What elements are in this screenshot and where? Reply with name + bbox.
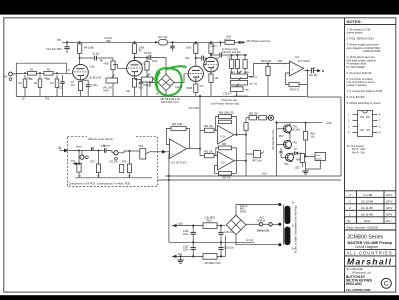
wire: footswitch ground: [306, 161, 321, 170]
svg-text:22-11-88: 22-11-88: [361, 206, 373, 210]
svg-text:IC1b: IC1b: [221, 137, 227, 139]
potentiometer VR5 BASS: [231, 84, 244, 96]
svg-text:Pin 4: -15v: Pin 4: -15v: [352, 150, 366, 154]
svg-text:2. PCB: JMP61A ONLY: 2. PCB: JMP61A ONLY: [347, 37, 375, 41]
op-amp IC2b: [218, 126, 235, 145]
svg-text:Dwg. Number: C00108: Dwg. Number: C00108: [347, 226, 379, 230]
svg-text:470k: 470k: [104, 63, 110, 66]
wire: IC2a +in ground: [168, 154, 170, 182]
resistor R71: [77, 151, 81, 178]
capacitor C62 (IC2b feedback): [219, 120, 232, 123]
label revision row 4: [349, 193, 392, 197]
svg-text:R2b: R2b: [45, 98, 50, 100]
svg-text:BC184: BC184: [293, 130, 301, 132]
svg-text:22-12-88: 22-12-88: [361, 200, 373, 204]
resistor R1 (series input): [28, 71, 37, 75]
node A output arrow: [317, 69, 325, 73]
resistor R3 (shunt to ground): [23, 72, 27, 96]
svg-text:Presence cap: Presence cap: [222, 99, 238, 102]
capacitor C41 (series): [99, 148, 114, 153]
resistor R15 (V2b plate load): [209, 41, 213, 57]
triode V1a: [73, 64, 89, 80]
svg-text:R72: R72: [91, 162, 96, 164]
svg-text:Marshall: Marshall: [347, 256, 392, 266]
wire: grid feed V1a: [22, 72, 73, 74]
svg-text:R50: R50: [311, 133, 316, 136]
resistor R62 (to IC2b): [200, 128, 218, 132]
capacitor C3 (coupling): [95, 56, 113, 61]
svg-text:4-1-88: 4-1-88: [364, 193, 373, 197]
resistor R16 (V2b cathode): [209, 74, 213, 96]
svg-text:TREB: TREB: [229, 72, 235, 74]
revision table frame: [345, 191, 396, 230]
svg-text:GAIN: GAIN: [103, 90, 109, 93]
IC pinout diagram: [348, 111, 381, 137]
resistor R63 (to IC2c): [200, 154, 218, 158]
connector MV jack: [268, 115, 273, 120]
svg-text:Foot: Foot: [316, 154, 321, 157]
resistor R22 (bass): [243, 54, 247, 74]
transformer T1 winding lower: [284, 227, 290, 245]
svg-text:switch: switch: [316, 157, 323, 160]
transistor TR2: [277, 133, 292, 149]
svg-text:+: +: [292, 67, 294, 71]
svg-text:470p: 470p: [152, 61, 158, 63]
svg-text:V2a: V2a: [185, 57, 190, 60]
wire: FX internal arrow node: [73, 162, 83, 165]
svg-text:10k 1w: 10k 1w: [224, 39, 231, 41]
resistor R61 (IC2a feedback): [167, 126, 190, 148]
svg-text:AC 12v: AC 12v: [246, 239, 254, 242]
svg-text:+16v b: +16v b: [210, 46, 218, 48]
svg-text:C65 47p: C65 47p: [222, 177, 231, 179]
svg-text:GPV: GPV: [386, 200, 392, 204]
resistor R66 (mixer out load): [244, 123, 248, 131]
svg-text:TR3: TR3: [284, 164, 289, 166]
op-amp IC1a: [290, 61, 304, 76]
separator above ALL COUNTRIES: [345, 249, 396, 251]
svg-text:8. VL2: ECC83.: 8. VL2: ECC83.: [347, 95, 366, 99]
svg-text:C11 1n: C11 1n: [175, 87, 183, 89]
svg-text:To Sec. of Mains Transformer (: To Sec. of Mains Transformer (See Pwr Am…: [295, 205, 298, 253]
svg-text:Gnd: Gnd: [262, 174, 267, 176]
svg-text:JCM800 Series: JCM800 Series: [347, 235, 384, 241]
label effects loop title: [87, 135, 135, 141]
diode D7: [292, 152, 302, 155]
bridge rectifier BR1: [226, 215, 246, 234]
wire: input shield ground loop: [16, 63, 66, 96]
svg-text:VR3 1M: VR3 1M: [249, 77, 257, 79]
wire: IC2b output: [234, 118, 247, 161]
svg-text:unless stated.: unless stated.: [347, 31, 364, 35]
resistor R51: [300, 154, 304, 168]
resistor R75 (FX extra): [120, 165, 124, 173]
svg-text:R63 10k: R63 10k: [204, 151, 213, 153]
svg-text:(on Preamp Version only): (on Preamp Version only): [211, 103, 239, 106]
capacitor C7 (coupling V2a to V2b): [195, 56, 206, 65]
capacitor C30: [191, 225, 196, 243]
svg-text:Effects Loop Circuit: Effects Loop Circuit: [89, 137, 113, 141]
svg-text:C15 0.68u: C15 0.68u: [189, 108, 200, 110]
triode V2b: [204, 57, 219, 74]
resistor R7 (V1a cathode): [78, 82, 82, 96]
label revision row 3: [349, 200, 392, 204]
green annotation circle: [155, 66, 185, 95]
svg-text:R54: R54: [296, 160, 301, 162]
wire: op-amp section ground rail: [165, 175, 341, 177]
svg-text:R53: R53: [279, 152, 284, 154]
bottom letterbox bar: [0, 295, 399, 300]
label note 3: [347, 43, 382, 53]
op-amp IC2c: [218, 152, 235, 171]
resistor R13 (V2a plate load): [194, 41, 198, 66]
svg-text:C: C: [384, 281, 389, 288]
svg-text:R64 100k C62: R64 100k C62: [219, 112, 234, 114]
svg-text:7815: 7815: [206, 220, 212, 223]
wire: ground rail (preamp row): [16, 96, 306, 98]
svg-text:ALL COUNTRIES: ALL COUNTRIES: [347, 251, 393, 256]
notes header separator: [345, 24, 396, 26]
resistor R31 (feedback): [289, 69, 308, 86]
svg-text:C5 1u: C5 1u: [144, 85, 151, 87]
capacitor C5 (V1b cathode bypass): [135, 80, 144, 97]
potentiometer VR4 MIDDLE: [231, 77, 248, 85]
potentiometer VR1 GAIN: [106, 75, 118, 97]
svg-text:1M: 1M: [34, 82, 37, 85]
ground (switch section): [302, 162, 308, 174]
svg-text:HT1: HT1: [57, 39, 62, 42]
wire: inverting input feedback loop: [286, 73, 290, 85]
svg-text:R62 10k: R62 10k: [204, 126, 213, 128]
wire: IC2a output node: [187, 95, 202, 156]
resistor R12 (switch bias): [145, 57, 149, 78]
capacitor C42 (FX extra): [92, 147, 94, 150]
label note 4: [347, 55, 377, 69]
label note 1: [347, 28, 371, 35]
svg-text:C22: C22: [227, 57, 232, 59]
svg-text:7. V connectors made to PCB.: 7. V connectors made to PCB.: [347, 89, 383, 93]
svg-text:R= NOT Radial: R= NOT Radial: [347, 65, 366, 69]
resistor R30 (shunt at op-amp input): [266, 64, 270, 97]
svg-text:2k7: 2k7: [71, 84, 76, 87]
top letterbox bar: [0, 0, 399, 15]
svg-text:Date: Date: [364, 219, 371, 223]
input jack JK1: [9, 72, 22, 80]
wire: switch left feed: [149, 82, 158, 88]
svg-text:(IN): (IN): [3, 76, 7, 79]
svg-text:VR4 1M: VR4 1M: [249, 83, 257, 85]
svg-text:1/4 TL072: 1/4 TL072: [298, 59, 310, 63]
resistor R9 (V1b plate load): [132, 41, 136, 60]
wire: +15v switch rail: [276, 122, 323, 124]
svg-text:MID: MID: [237, 72, 241, 74]
resistor R11 (rail decoupling): [155, 39, 168, 45]
transformer T1 winding upper: [284, 206, 290, 224]
resistor R5 (shunt): [38, 72, 42, 96]
svg-text:0.68u: 0.68u: [92, 84, 99, 87]
wire: lower ground rail: [158, 179, 342, 181]
svg-text:TR2: TR2: [293, 142, 298, 145]
svg-text:C00109 100W.: C00109 100W.: [363, 49, 381, 53]
effects loop dashed enclosure: [68, 137, 158, 187]
capacitor C6 (coupling V1b to switch): [134, 55, 167, 74]
wire: switch section left bus: [276, 121, 278, 176]
svg-text:FS1: FS1: [260, 217, 265, 220]
notes column left edge: [344, 18, 346, 292]
capacitor C32: [191, 241, 196, 257]
wire: to op-amp non-inverting input: [268, 63, 290, 65]
svg-text:Components in FX PCB : connect: Components in FX PCB : connected via 7-w…: [69, 182, 131, 185]
resistor R4 (V1a plate load): [77, 41, 81, 64]
resistor R50: [303, 122, 307, 157]
svg-text:100k: 100k: [139, 46, 145, 50]
diode switch D1-D4 (bridge): [158, 74, 174, 90]
wire: FX internal ground rail: [75, 177, 152, 179]
svg-text:820R: 820R: [187, 87, 193, 90]
svg-text:BASS: BASS: [244, 71, 250, 74]
potentiometer VR6 FX level: [130, 149, 150, 159]
svg-text:Iss.: Iss.: [347, 219, 352, 223]
label note 10: [347, 144, 367, 154]
svg-text:C20 22n C21 10n: C20 22n C21 10n: [222, 51, 241, 54]
svg-text:IC1: IC1: [295, 55, 300, 59]
resistor R14 (V2a cathode): [194, 84, 198, 96]
wire: bridge to transformer top: [236, 203, 281, 215]
svg-text:R11 10k: R11 10k: [159, 36, 169, 39]
resistor R80 (MV feed): [246, 116, 259, 120]
logo box bottom: [345, 265, 396, 267]
wire: FX output to mixer: [150, 150, 170, 154]
capacitor C31: [218, 225, 223, 243]
svg-text:V2: V2: [216, 56, 220, 60]
capacitor C1A (HT filter): [64, 41, 69, 53]
svg-text:MV Jack Send Gnd: MV Jack Send Gnd: [272, 129, 275, 150]
svg-text:GPV: GPV: [386, 206, 392, 210]
resistor R72: [96, 151, 100, 178]
transistor TR3: [281, 148, 294, 162]
resistor R64 (IC2b feedback): [216, 115, 238, 136]
potentiometer VR7 (master): [246, 150, 264, 157]
label note 6: [347, 77, 376, 87]
svg-text:-: -: [172, 144, 173, 148]
svg-text:R52: R52: [279, 136, 284, 138]
jack SEND: [80, 151, 88, 160]
svg-text:R80 C80: R80 C80: [249, 113, 259, 115]
wire: -15v output rail: [172, 255, 203, 257]
resistor R24 (MV phase tap): [220, 40, 242, 46]
svg-text:Send: Send: [76, 146, 82, 149]
resistor R8 (grid leak): [111, 61, 115, 78]
svg-text:C16 10u C17: C16 10u C17: [234, 96, 248, 98]
svg-text:+: +: [172, 152, 174, 156]
svg-text:R12: R12: [139, 64, 144, 66]
fuse FS1: [246, 223, 281, 226]
svg-text:GPV: GPV: [386, 193, 392, 197]
footswitch box: [305, 153, 326, 161]
svg-text:IC1 1/4 TL072: IC1 1/4 TL072: [171, 162, 187, 165]
transistor TR1: [277, 123, 292, 134]
resistor R21 (middle): [235, 54, 239, 74]
svg-text:R32: R32: [278, 61, 283, 63]
svg-text:R73: R73: [122, 162, 127, 164]
resistor R73: [127, 150, 131, 178]
ground (PSU): [177, 255, 183, 263]
svg-text:R4 100k: R4 100k: [84, 46, 94, 50]
svg-text:C40: C40: [101, 146, 106, 148]
svg-text:+15v: +15v: [177, 221, 184, 225]
wire: switch ground leg: [165, 91, 167, 96]
label note 7: [347, 89, 383, 93]
svg-text:(to Power Amp): (to Power Amp): [222, 48, 238, 51]
svg-text:VR6: VR6: [139, 146, 144, 148]
svg-text:100u: 100u: [183, 234, 189, 236]
label revision row 1: [349, 213, 392, 217]
svg-text:C6 22n: C6 22n: [144, 52, 152, 55]
svg-text:VR1 1M: VR1 1M: [103, 87, 112, 90]
resistor R10 (V1b cathode): [132, 79, 136, 97]
svg-text:File: 800PRE.DRW: File: 800PRE.DRW: [346, 288, 371, 292]
logo box top: [345, 255, 396, 257]
capacitor C65 (IC2c lower): [215, 161, 237, 175]
svg-text:9. MOS2 switching IC pinout: 9. MOS2 switching IC pinout: [347, 101, 381, 105]
node +15v arrow: [172, 221, 184, 227]
svg-text:D10-13: D10-13: [240, 206, 248, 208]
wire: right bus down-feed: [340, 97, 342, 176]
svg-text:1/2 ECC83: 1/2 ECC83: [89, 76, 102, 80]
svg-text:Drn.: Drn.: [386, 219, 392, 223]
wire: PSU left riser: [168, 176, 170, 242]
resistor R6 (shunt): [55, 72, 59, 96]
wire: tone stack output: [248, 63, 270, 77]
capacitor C2 (shunt): [60, 75, 64, 96]
svg-text:Circuit Diagram: Circuit Diagram: [355, 245, 378, 249]
resistor R2 (series input): [44, 71, 53, 75]
svg-text:C23 47n: C23 47n: [223, 94, 232, 96]
capacitor C9 (rail decoupling): [170, 41, 175, 51]
svg-text:C103 10u: C103 10u: [224, 247, 235, 249]
wire: HT supply top rail: [62, 41, 241, 43]
svg-text:R65: R65: [222, 144, 227, 146]
node MV phase level out arrow: [242, 39, 271, 44]
potentiometer VR2: [142, 74, 153, 97]
svg-text:preamp versions.: preamp versions.: [347, 83, 368, 87]
svg-text:MV Phase Level Out: MV Phase Level Out: [247, 39, 271, 43]
resistor R20 (treble): [230, 54, 234, 74]
wire: PSU centre rail: [169, 241, 254, 243]
svg-text:R10 & R11 0.1%: R10 & R11 0.1%: [161, 101, 180, 104]
svg-text:R61 100k: R61 100k: [172, 123, 183, 126]
wire: +15v output rail: [172, 225, 203, 227]
svg-text:W005: W005: [240, 212, 247, 214]
svg-text:1M: 1M: [22, 98, 25, 100]
op-amp IC2a: [170, 139, 187, 159]
resistor R81 (MV feed 2): [259, 116, 269, 120]
potentiometer VR3 TREBLE: [231, 71, 248, 79]
node A input arrow: [59, 146, 69, 153]
triode V1b: [127, 61, 143, 79]
svg-text:18-11-88: 18-11-88: [361, 213, 373, 217]
regulator REG2 7915: [203, 236, 225, 260]
svg-text:LED: LED: [295, 168, 300, 170]
capacitor C8 (coupling to tone stack): [210, 53, 247, 58]
wire: FX input run: [69, 150, 100, 152]
svg-text:5. All zeners 400mW.: 5. All zeners 400mW.: [347, 71, 372, 75]
wire: switch to V2a grid: [174, 74, 188, 83]
wire: V1b grid: [113, 65, 127, 69]
svg-text:R31 47k: R31 47k: [290, 89, 300, 92]
svg-text:NOTES:: NOTES:: [347, 19, 362, 24]
svg-text:C1A 10u 350v: C1A 10u 350v: [46, 47, 63, 51]
jack RETURN: [114, 151, 130, 160]
label revision row 2: [349, 206, 392, 210]
copyright symbol: [381, 278, 391, 288]
svg-text:R30 470k: R30 470k: [261, 60, 272, 63]
svg-text:MASTER VOLUME Preamp: MASTER VOLUME Preamp: [348, 241, 393, 245]
capacitor C33: [218, 241, 223, 257]
svg-text:C41 10u: C41 10u: [109, 162, 118, 164]
svg-text:C28: C28: [311, 67, 316, 70]
capacitor C28 (output): [304, 68, 321, 73]
capacitor C4 (cathode bypass): [81, 80, 91, 96]
wire: V1a plate coupling: [79, 57, 94, 59]
svg-text:ENGLAND: ENGLAND: [346, 282, 362, 286]
regulator REG1 7815: [203, 223, 225, 229]
svg-text:250mA Slo: 250mA Slo: [257, 229, 270, 232]
svg-text:C100: C100: [183, 231, 189, 233]
wire: op-amp output down-feed: [307, 85, 341, 98]
triode V2a: [188, 66, 203, 84]
svg-text:+15v: +15v: [326, 121, 333, 125]
node -15v arrow: [172, 252, 183, 258]
wire: IC2c output: [234, 160, 247, 176]
svg-text:C101 10u: C101 10u: [224, 232, 235, 234]
svg-text:V1a: V1a: [90, 65, 95, 69]
svg-text:VR7 Gnd: VR7 Gnd: [252, 161, 262, 163]
svg-text:100u: 100u: [183, 249, 189, 251]
resistor R65 (IC2c feedback): [216, 146, 237, 161]
label revision header: [347, 219, 392, 223]
svg-text:TR1: TR1: [293, 126, 298, 129]
transformer T1 core line: [283, 205, 285, 245]
svg-text:10u 35v: 10u 35v: [309, 74, 318, 77]
svg-text:1M: 1M: [128, 176, 131, 178]
svg-text:-15v REG 7915: -15v REG 7915: [204, 262, 221, 265]
svg-text:C102: C102: [183, 246, 189, 248]
svg-text:350v: 350v: [106, 40, 112, 43]
svg-text:T500mA: T500mA: [257, 220, 266, 223]
svg-text:C3 22n: C3 22n: [92, 53, 100, 56]
svg-text:100k: 100k: [186, 47, 192, 50]
wire: bridge to transformer bottom: [236, 235, 281, 247]
svg-text:C12: C12: [200, 86, 205, 88]
svg-text:GPV: GPV: [386, 213, 392, 217]
